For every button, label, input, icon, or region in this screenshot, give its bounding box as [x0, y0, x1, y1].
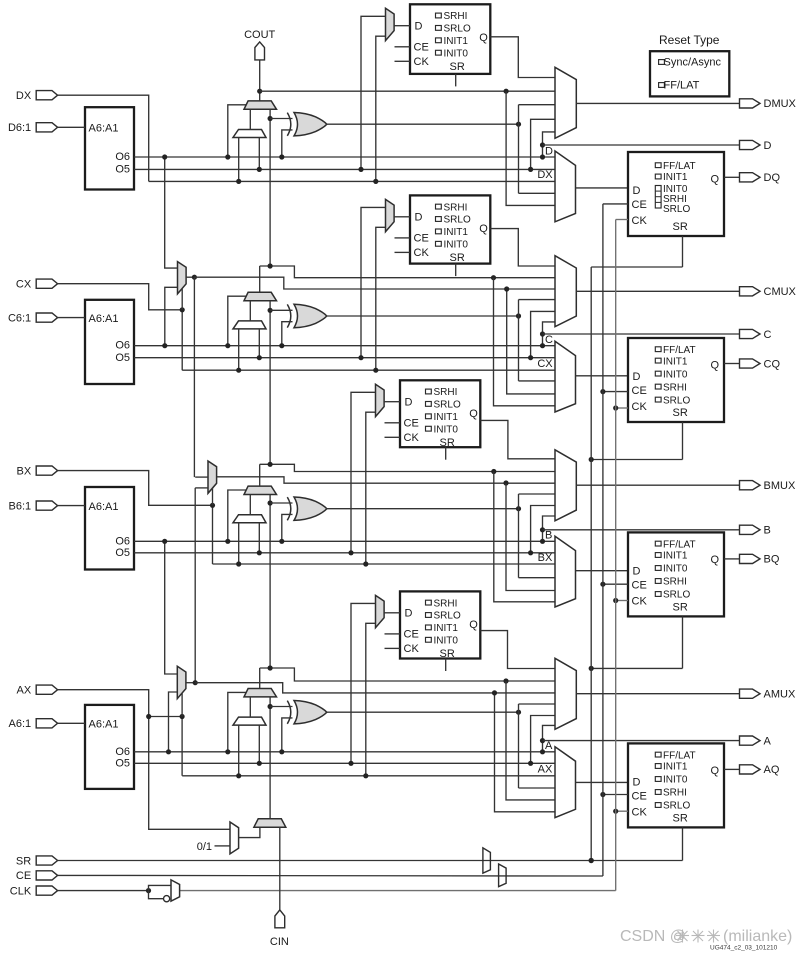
svg-text:DQ: DQ [764, 172, 781, 184]
svg-text:FF/LAT: FF/LAT [663, 750, 696, 761]
svg-text:A6:A1: A6:A1 [89, 123, 119, 135]
svg-text:CE: CE [632, 790, 647, 802]
svg-text:C: C [545, 334, 553, 346]
svg-text:AQ: AQ [764, 764, 780, 776]
svg-text:BQ: BQ [764, 554, 780, 566]
svg-text:INIT0: INIT0 [444, 240, 469, 251]
svg-text:INIT0: INIT0 [434, 424, 459, 435]
svg-text:CLK: CLK [10, 885, 32, 897]
svg-text:CIN: CIN [270, 936, 289, 948]
svg-text:CK: CK [632, 595, 648, 607]
svg-text:SRHI: SRHI [663, 788, 687, 799]
svg-text:Q: Q [479, 32, 488, 44]
svg-text:DX: DX [537, 169, 553, 181]
svg-text:D: D [633, 185, 641, 197]
svg-text:SRLO: SRLO [663, 801, 690, 812]
svg-text:FF/LAT: FF/LAT [663, 345, 696, 356]
svg-text:C: C [764, 329, 772, 341]
svg-text:SR: SR [450, 252, 465, 264]
svg-text:SRLO: SRLO [444, 215, 471, 226]
svg-text:CK: CK [632, 215, 648, 227]
svg-text:INIT0: INIT0 [663, 775, 688, 786]
svg-text:INIT1: INIT1 [444, 227, 469, 238]
svg-text:DX: DX [16, 90, 32, 102]
svg-text:B: B [545, 530, 552, 542]
svg-text:CE: CE [632, 385, 647, 397]
svg-text:BMUX: BMUX [764, 480, 796, 492]
svg-text:Sync/Async: Sync/Async [664, 57, 722, 69]
svg-text:Q: Q [711, 765, 720, 777]
svg-text:COUT: COUT [244, 29, 275, 41]
svg-text:CX: CX [537, 358, 553, 370]
svg-text:CE: CE [404, 629, 419, 641]
svg-text:Q: Q [469, 408, 478, 420]
svg-text:CE: CE [632, 199, 647, 211]
svg-text:Q: Q [469, 619, 478, 631]
svg-text:O6: O6 [115, 340, 130, 352]
svg-text:CMUX: CMUX [764, 286, 797, 298]
svg-text:O6: O6 [115, 151, 130, 163]
svg-text:O5: O5 [115, 352, 130, 364]
svg-text:SR: SR [440, 437, 455, 449]
svg-text:A6:A1: A6:A1 [89, 501, 119, 513]
svg-text:CK: CK [404, 432, 420, 444]
svg-text:A: A [545, 740, 553, 752]
svg-text:INIT1: INIT1 [663, 172, 688, 183]
svg-text:AMUX: AMUX [764, 689, 796, 701]
svg-text:CK: CK [632, 401, 648, 413]
svg-text:C6:1: C6:1 [8, 312, 31, 324]
svg-text:CQ: CQ [764, 358, 781, 370]
svg-text:FF/LAT: FF/LAT [664, 80, 700, 92]
svg-text:A6:A1: A6:A1 [89, 313, 119, 325]
svg-text:D: D [405, 397, 413, 409]
svg-text:Reset Type: Reset Type [659, 33, 720, 47]
svg-text:O5: O5 [115, 547, 130, 559]
svg-text:CX: CX [16, 279, 32, 291]
svg-text:INIT1: INIT1 [434, 412, 459, 423]
svg-text:SRHI: SRHI [444, 11, 468, 22]
svg-text:SR: SR [440, 648, 455, 660]
svg-text:0/1: 0/1 [197, 841, 212, 853]
svg-text:D: D [633, 565, 641, 577]
svg-text:CK: CK [632, 806, 648, 818]
svg-text:INIT0: INIT0 [663, 564, 688, 575]
svg-text:CE: CE [414, 233, 429, 245]
svg-text:B6:1: B6:1 [9, 500, 32, 512]
svg-text:SRLO: SRLO [663, 204, 690, 215]
svg-text:SRLO: SRLO [663, 395, 690, 406]
svg-text:A6:1: A6:1 [9, 718, 32, 730]
svg-text:SRLO: SRLO [444, 24, 471, 35]
svg-text:CE: CE [632, 579, 647, 591]
svg-text:SR: SR [16, 855, 31, 867]
svg-text:SRLO: SRLO [434, 611, 461, 622]
svg-text:D6:1: D6:1 [8, 122, 31, 134]
svg-text:INIT1: INIT1 [434, 623, 459, 634]
svg-text:INIT0: INIT0 [663, 369, 688, 380]
svg-text:SR: SR [673, 812, 688, 824]
svg-text:D: D [405, 608, 413, 620]
svg-text:D: D [633, 371, 641, 383]
svg-text:SRHI: SRHI [434, 598, 458, 609]
svg-text:A6:A1: A6:A1 [89, 719, 119, 731]
svg-text:DMUX: DMUX [764, 98, 797, 110]
svg-text:Q: Q [711, 360, 720, 372]
svg-text:SRHI: SRHI [663, 382, 687, 393]
svg-text:SRHI: SRHI [444, 202, 468, 213]
svg-text:Q: Q [711, 554, 720, 566]
svg-text:FF/LAT: FF/LAT [663, 539, 696, 550]
svg-text:CK: CK [414, 56, 430, 68]
svg-text:CE: CE [414, 42, 429, 54]
svg-text:SR: SR [673, 601, 688, 613]
svg-text:D: D [545, 145, 553, 157]
svg-text:INIT0: INIT0 [434, 636, 459, 647]
svg-text:BX: BX [538, 552, 553, 564]
svg-text:B: B [764, 525, 771, 537]
svg-text:D: D [764, 140, 772, 152]
svg-text:CE: CE [16, 870, 31, 882]
svg-text:SRHI: SRHI [434, 387, 458, 398]
svg-text:SR: SR [450, 61, 465, 73]
svg-text:CE: CE [404, 418, 419, 430]
svg-text:Q: Q [711, 174, 720, 186]
svg-text:UG474_c2_03_101210: UG474_c2_03_101210 [710, 945, 778, 952]
svg-text:A: A [764, 735, 772, 747]
svg-text:INIT1: INIT1 [663, 762, 688, 773]
svg-text:CK: CK [414, 247, 430, 259]
svg-text:D: D [415, 212, 423, 224]
svg-text:BX: BX [17, 465, 32, 477]
svg-text:SRHI: SRHI [663, 577, 687, 588]
svg-text:O6: O6 [115, 746, 130, 758]
svg-text:INIT1: INIT1 [663, 356, 688, 367]
svg-text:D: D [415, 21, 423, 33]
svg-text:D: D [633, 776, 641, 788]
svg-text:SR: SR [673, 221, 688, 233]
svg-text:SRLO: SRLO [434, 400, 461, 411]
svg-text:FF/LAT: FF/LAT [663, 161, 696, 172]
svg-text:O5: O5 [115, 164, 130, 176]
svg-text:(milianke): (milianke) [723, 928, 792, 945]
svg-text:CK: CK [404, 643, 420, 655]
svg-text:O6: O6 [115, 535, 130, 547]
svg-text:SR: SR [673, 407, 688, 419]
svg-text:CSDN @: CSDN @ [620, 928, 686, 945]
svg-text:INIT1: INIT1 [663, 551, 688, 562]
svg-text:O5: O5 [115, 758, 130, 770]
svg-text:AX: AX [538, 764, 553, 776]
svg-text:AX: AX [17, 685, 32, 697]
svg-text:Q: Q [479, 223, 488, 235]
svg-text:INIT1: INIT1 [444, 36, 469, 47]
svg-text:SRLO: SRLO [663, 590, 690, 601]
svg-text:INIT0: INIT0 [444, 48, 469, 59]
